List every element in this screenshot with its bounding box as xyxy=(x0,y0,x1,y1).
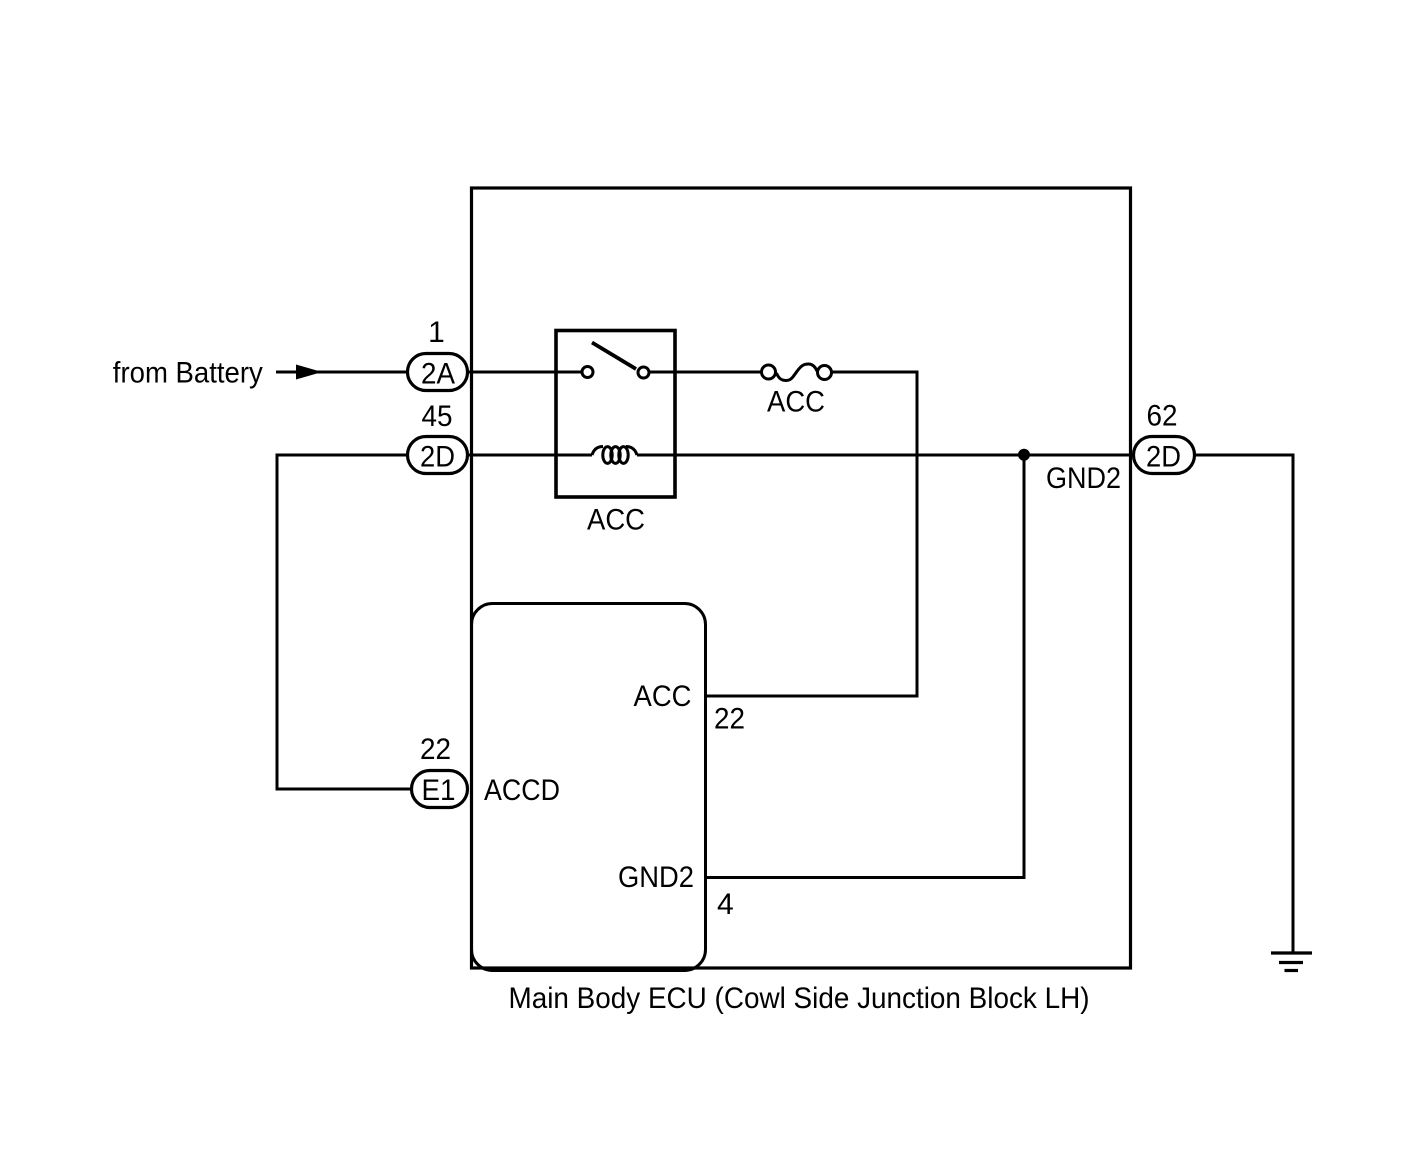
svg-text:22: 22 xyxy=(420,733,451,766)
ECU internal block xyxy=(472,604,706,971)
svg-text:1: 1 xyxy=(428,316,445,349)
svg-text:from Battery: from Battery xyxy=(113,357,263,390)
connector 2A xyxy=(408,354,468,391)
relay ACC xyxy=(556,331,675,537)
wire from battery to connector 2A xyxy=(276,371,407,374)
coil loop 3 xyxy=(619,447,628,464)
switch contact left xyxy=(582,367,593,378)
coil loop 2 xyxy=(611,447,620,464)
switch blade xyxy=(592,343,636,370)
switch contact right xyxy=(638,367,649,378)
svg-text:ACC: ACC xyxy=(634,680,692,713)
fuse element wave xyxy=(777,364,818,381)
connector E1 xyxy=(412,771,468,808)
wire 2D through relay coil to 2D pin 62 xyxy=(469,454,592,457)
wire 2A to relay switch xyxy=(469,371,582,374)
coil entry hump xyxy=(592,447,603,456)
svg-text:22: 22 xyxy=(714,703,745,736)
svg-text:45: 45 xyxy=(422,400,453,433)
svg-text:ACC: ACC xyxy=(767,386,825,419)
svg-text:E1: E1 xyxy=(422,774,456,807)
svg-text:GND2: GND2 xyxy=(1046,462,1121,495)
wire relay switch to fuse xyxy=(650,371,762,374)
fuse terminal left xyxy=(762,365,776,379)
svg-text:Main Body ECU (Cowl Side Junct: Main Body ECU (Cowl Side Junction Block … xyxy=(509,982,1090,1015)
ECU box Main Body ECU (Cowl Side Junction Block LH) xyxy=(472,188,1131,968)
fuse terminal right xyxy=(818,366,832,380)
junction GND2 node xyxy=(1018,449,1030,461)
svg-text:62: 62 xyxy=(1147,400,1178,433)
svg-text:2D: 2D xyxy=(1146,441,1181,474)
wire junction to ECU GND2 pin 4 xyxy=(706,455,1025,878)
wire fuse to ECU ACC pin 22 xyxy=(706,372,918,696)
svg-text:2D: 2D xyxy=(420,441,455,474)
wire 2D pin 62 to ground xyxy=(1195,455,1293,952)
svg-text:2A: 2A xyxy=(421,358,455,391)
svg-text:GND2: GND2 xyxy=(618,861,694,894)
svg-text:ACCD: ACCD xyxy=(484,774,560,807)
svg-text:4: 4 xyxy=(717,888,734,921)
svg-text:ACC: ACC xyxy=(587,503,645,536)
ground xyxy=(1271,953,1312,971)
arrow battery feed direction xyxy=(296,365,322,380)
connector 2D pin 62 xyxy=(1134,437,1195,474)
relay body xyxy=(556,331,675,498)
wire 2D to E1 (ACCD feed) xyxy=(277,455,412,789)
fuse ACC xyxy=(762,364,832,419)
wire coil to right 2D oval xyxy=(637,454,1133,457)
coil loop 1 xyxy=(603,447,612,464)
connector 2D pin 45 xyxy=(408,437,468,474)
coil exit hump xyxy=(626,447,637,456)
